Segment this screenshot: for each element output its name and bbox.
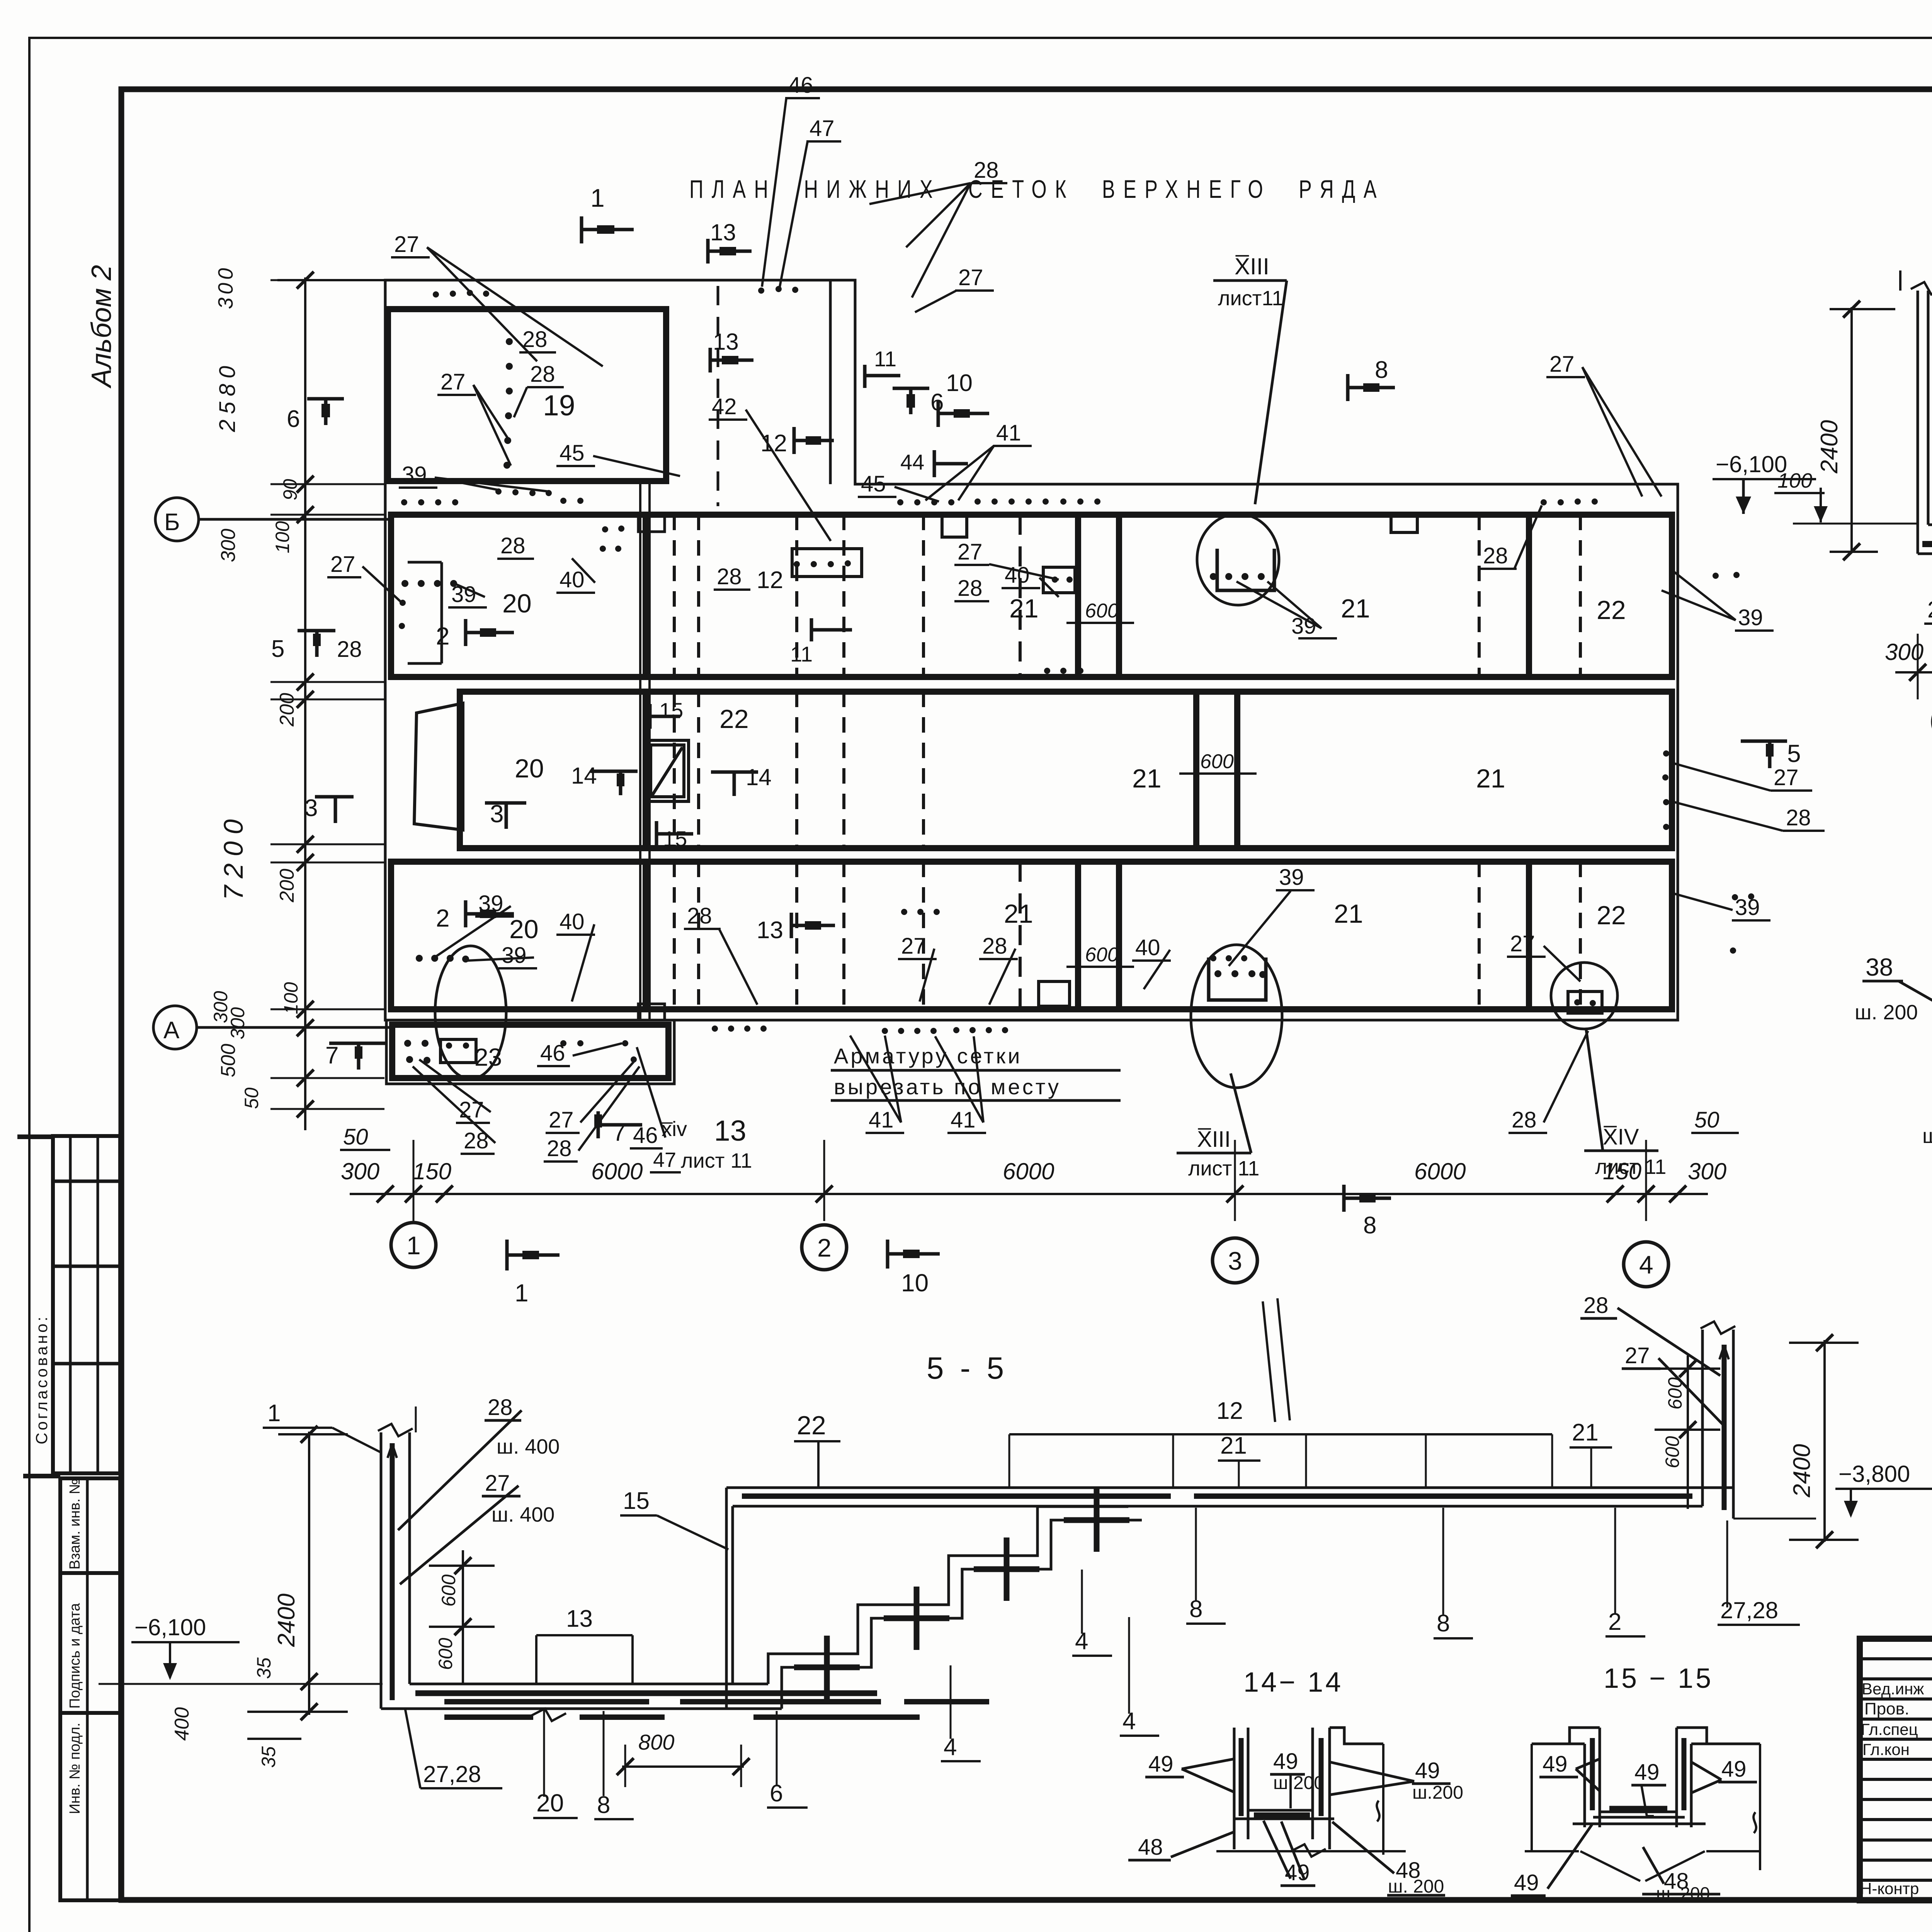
svg-text:15: 15 bbox=[663, 827, 687, 851]
svg-text:11: 11 bbox=[790, 642, 813, 666]
svg-text:45: 45 bbox=[861, 471, 886, 497]
svg-text:35: 35 bbox=[253, 1657, 275, 1679]
svg-text:28: 28 bbox=[957, 576, 983, 601]
svg-text:28: 28 bbox=[522, 327, 548, 352]
svg-text:вырезать по месту: вырезать по месту bbox=[834, 1075, 1061, 1099]
svg-text:27: 27 bbox=[330, 552, 355, 577]
svg-text:300: 300 bbox=[214, 265, 237, 309]
svg-text:44: 44 bbox=[900, 450, 924, 474]
svg-text:ш. 200: ш. 200 bbox=[1855, 1001, 1918, 1024]
svg-text:21: 21 bbox=[1476, 764, 1505, 793]
svg-text:2400: 2400 bbox=[273, 1594, 300, 1647]
svg-text:2: 2 bbox=[817, 1233, 832, 1262]
svg-text:27,28: 27,28 bbox=[1720, 1597, 1778, 1623]
svg-text:6000: 6000 bbox=[1414, 1158, 1466, 1184]
svg-text:27: 27 bbox=[394, 232, 419, 257]
svg-text:Взам. инв. №: Взам. инв. № bbox=[67, 1479, 83, 1570]
svg-text:49: 49 bbox=[1721, 1757, 1747, 1782]
svg-text:X̅IV: X̅IV bbox=[1603, 1124, 1639, 1150]
svg-text:6000: 6000 bbox=[591, 1158, 643, 1184]
svg-text:600: 600 bbox=[1662, 1436, 1683, 1468]
svg-text:1: 1 bbox=[515, 1279, 529, 1307]
svg-text:6000: 6000 bbox=[1003, 1158, 1054, 1184]
svg-text:13: 13 bbox=[714, 1114, 746, 1147]
svg-text:41: 41 bbox=[951, 1107, 976, 1133]
svg-text:46: 46 bbox=[540, 1041, 565, 1066]
svg-text:27: 27 bbox=[549, 1107, 574, 1133]
svg-text:39: 39 bbox=[402, 462, 427, 487]
svg-text:600: 600 bbox=[1085, 600, 1119, 622]
svg-text:8: 8 bbox=[1375, 357, 1388, 383]
svg-text:20: 20 bbox=[502, 589, 532, 618]
svg-text:46: 46 bbox=[788, 73, 813, 98]
svg-text:20: 20 bbox=[536, 1789, 564, 1817]
svg-text:600: 600 bbox=[1200, 750, 1234, 773]
svg-text:49: 49 bbox=[1514, 1870, 1539, 1895]
svg-text:15 − 15: 15 − 15 bbox=[1604, 1663, 1713, 1694]
svg-text:Пров.: Пров. bbox=[1864, 1699, 1909, 1718]
svg-text:49: 49 bbox=[1273, 1749, 1298, 1774]
svg-text:27: 27 bbox=[957, 539, 983, 565]
svg-text:лист 11: лист 11 bbox=[1188, 1157, 1259, 1180]
svg-text:28: 28 bbox=[1583, 1293, 1609, 1318]
svg-text:Гл.кон: Гл.кон bbox=[1862, 1740, 1910, 1759]
svg-text:27: 27 bbox=[485, 1471, 510, 1496]
svg-text:7: 7 bbox=[325, 1042, 338, 1069]
svg-text:41: 41 bbox=[996, 420, 1021, 446]
svg-text:27: 27 bbox=[1510, 931, 1535, 956]
svg-text:2400: 2400 bbox=[1789, 1444, 1815, 1498]
svg-text:47: 47 bbox=[810, 116, 835, 141]
svg-text:47: 47 bbox=[653, 1148, 676, 1172]
svg-text:14: 14 bbox=[571, 763, 597, 789]
svg-text:400: 400 bbox=[171, 1707, 193, 1741]
svg-text:300: 300 bbox=[341, 1158, 379, 1184]
svg-text:23: 23 bbox=[474, 1043, 502, 1071]
svg-text:800: 800 bbox=[638, 1730, 674, 1754]
svg-text:−6,100: −6,100 bbox=[1716, 451, 1787, 477]
svg-text:28: 28 bbox=[530, 362, 555, 387]
svg-text:22: 22 bbox=[1597, 901, 1626, 930]
svg-text:300: 300 bbox=[217, 529, 240, 562]
svg-text:50: 50 bbox=[241, 1087, 262, 1109]
svg-text:40: 40 bbox=[1005, 563, 1030, 588]
svg-text:20: 20 bbox=[509, 915, 539, 944]
svg-text:Подпись и дата: Подпись и дата bbox=[67, 1603, 83, 1709]
svg-text:45: 45 bbox=[560, 440, 585, 466]
svg-text:28: 28 bbox=[547, 1136, 572, 1161]
svg-text:7200: 7200 bbox=[218, 812, 248, 900]
svg-text:39: 39 bbox=[1735, 895, 1760, 920]
svg-text:14: 14 bbox=[746, 764, 772, 790]
svg-text:ш. 200: ш. 200 bbox=[1388, 1876, 1444, 1897]
svg-text:46: 46 bbox=[633, 1123, 658, 1148]
svg-text:21: 21 bbox=[1004, 899, 1033, 929]
svg-text:600: 600 bbox=[438, 1574, 459, 1607]
svg-text:27: 27 bbox=[958, 265, 983, 290]
svg-text:2580: 2580 bbox=[215, 361, 240, 432]
svg-text:28: 28 bbox=[337, 637, 362, 662]
svg-text:22: 22 bbox=[719, 704, 749, 734]
svg-text:ш.400: ш.400 bbox=[1922, 1124, 1932, 1148]
svg-text:200: 200 bbox=[276, 869, 298, 903]
svg-text:13: 13 bbox=[566, 1605, 593, 1632]
svg-text:49: 49 bbox=[1148, 1752, 1173, 1777]
svg-text:600: 600 bbox=[1085, 944, 1119, 966]
svg-text:Н-контр: Н-контр bbox=[1860, 1879, 1919, 1898]
svg-text:27,28: 27,28 bbox=[1927, 597, 1932, 622]
svg-text:ш.200: ш.200 bbox=[1412, 1782, 1463, 1803]
svg-text:27: 27 bbox=[1625, 1343, 1650, 1368]
svg-text:ш. 400: ш. 400 bbox=[492, 1503, 554, 1526]
svg-text:2400: 2400 bbox=[1816, 420, 1843, 474]
svg-text:35: 35 bbox=[258, 1746, 279, 1768]
svg-text:39: 39 bbox=[502, 943, 527, 968]
svg-text:27: 27 bbox=[440, 369, 466, 395]
svg-text:28: 28 bbox=[717, 564, 742, 589]
svg-text:27: 27 bbox=[1549, 352, 1575, 377]
svg-text:5: 5 bbox=[271, 636, 284, 662]
svg-text:22: 22 bbox=[797, 1411, 826, 1440]
svg-text:8: 8 bbox=[1363, 1212, 1376, 1239]
svg-text:300: 300 bbox=[1688, 1158, 1726, 1184]
svg-text:200: 200 bbox=[276, 693, 298, 727]
svg-text:X̅III: X̅III bbox=[1235, 253, 1269, 279]
svg-text:40: 40 bbox=[1135, 935, 1160, 960]
svg-text:21: 21 bbox=[1334, 899, 1363, 929]
svg-text:28: 28 bbox=[1483, 543, 1508, 568]
svg-text:28: 28 bbox=[488, 1395, 513, 1420]
svg-text:10: 10 bbox=[946, 370, 973, 396]
svg-text:14− 14: 14− 14 bbox=[1243, 1667, 1343, 1698]
svg-text:21: 21 bbox=[1572, 1419, 1599, 1446]
svg-text:21: 21 bbox=[1220, 1432, 1247, 1459]
svg-text:50: 50 bbox=[343, 1124, 368, 1150]
svg-text:39: 39 bbox=[1738, 605, 1763, 630]
svg-text:19: 19 bbox=[543, 389, 575, 422]
svg-text:1: 1 bbox=[406, 1231, 421, 1260]
svg-text:100: 100 bbox=[1777, 469, 1812, 492]
svg-text:28: 28 bbox=[1786, 805, 1811, 830]
svg-text:1: 1 bbox=[590, 184, 605, 212]
svg-text:28: 28 bbox=[982, 934, 1007, 959]
svg-text:5: 5 bbox=[1787, 740, 1801, 767]
svg-text:27: 27 bbox=[1774, 765, 1799, 790]
svg-text:лист 11: лист 11 bbox=[681, 1149, 752, 1172]
svg-text:4: 4 bbox=[1639, 1250, 1653, 1279]
svg-text:12: 12 bbox=[1216, 1398, 1243, 1424]
svg-text:−3,800: −3,800 bbox=[1838, 1461, 1910, 1487]
svg-text:27: 27 bbox=[459, 1097, 484, 1122]
svg-text:лист11: лист11 bbox=[1218, 287, 1283, 310]
svg-text:150: 150 bbox=[413, 1158, 451, 1184]
svg-text:Вед.инж: Вед.инж bbox=[1862, 1680, 1924, 1698]
svg-text:40: 40 bbox=[560, 909, 585, 934]
svg-text:40: 40 bbox=[560, 567, 585, 592]
svg-text:28: 28 bbox=[687, 903, 712, 929]
svg-text:ш. 400: ш. 400 bbox=[497, 1435, 560, 1458]
svg-text:Б: Б bbox=[164, 509, 180, 536]
svg-text:21: 21 bbox=[1009, 594, 1039, 623]
svg-text:50: 50 bbox=[1694, 1107, 1719, 1133]
svg-text:49: 49 bbox=[1634, 1760, 1660, 1785]
svg-text:49: 49 bbox=[1543, 1752, 1568, 1777]
svg-text:1: 1 bbox=[267, 1400, 281, 1427]
svg-text:11: 11 bbox=[874, 347, 896, 371]
svg-text:Согласовано:: Согласовано: bbox=[32, 1315, 51, 1444]
svg-text:38: 38 bbox=[1866, 953, 1893, 981]
svg-text:28: 28 bbox=[500, 533, 526, 558]
svg-text:15: 15 bbox=[623, 1488, 650, 1514]
svg-text:20: 20 bbox=[515, 754, 544, 783]
svg-text:27: 27 bbox=[901, 934, 926, 959]
svg-text:27,28: 27,28 bbox=[423, 1761, 481, 1787]
svg-text:12: 12 bbox=[757, 567, 783, 594]
svg-text:21: 21 bbox=[1341, 594, 1370, 623]
svg-text:500: 500 bbox=[217, 1044, 240, 1077]
svg-text:3: 3 bbox=[1228, 1247, 1242, 1275]
svg-text:39: 39 bbox=[451, 582, 476, 607]
svg-text:100: 100 bbox=[272, 521, 293, 553]
svg-text:13: 13 bbox=[710, 219, 736, 245]
svg-text:Гл.спец: Гл.спец bbox=[1861, 1720, 1918, 1738]
svg-text:А: А bbox=[163, 1017, 180, 1044]
svg-text:Инв. № подл.: Инв. № подл. bbox=[67, 1723, 83, 1814]
svg-text:28: 28 bbox=[1512, 1107, 1537, 1133]
svg-text:13: 13 bbox=[713, 329, 739, 355]
svg-text:150: 150 bbox=[1603, 1158, 1641, 1184]
svg-text:28: 28 bbox=[974, 158, 999, 183]
svg-text:2: 2 bbox=[436, 904, 450, 932]
svg-text:600: 600 bbox=[435, 1638, 456, 1670]
svg-text:42: 42 bbox=[712, 394, 737, 419]
svg-text:ПЛАН НИЖНИХ СЕТОК ВЕРХНЕГО: ПЛАН НИЖНИХ СЕТОК ВЕРХНЕГО РЯДА bbox=[689, 175, 1385, 203]
svg-text:22: 22 bbox=[1597, 595, 1626, 625]
svg-text:300: 300 bbox=[227, 1007, 248, 1039]
svg-text:6: 6 bbox=[287, 406, 300, 432]
svg-text:Альбом 2: Альбом 2 bbox=[86, 265, 117, 389]
svg-text:39: 39 bbox=[1279, 865, 1304, 890]
svg-text:13: 13 bbox=[757, 917, 783, 944]
svg-text:−6,100: −6,100 bbox=[134, 1614, 206, 1640]
svg-text:15: 15 bbox=[659, 698, 683, 723]
svg-text:21: 21 bbox=[1132, 764, 1162, 793]
svg-text:49: 49 bbox=[1415, 1758, 1440, 1783]
svg-text:41: 41 bbox=[869, 1107, 894, 1133]
svg-text:5 - 5: 5 - 5 bbox=[927, 1351, 1008, 1385]
svg-text:48: 48 bbox=[1138, 1835, 1163, 1860]
svg-text:X̅III: X̅III bbox=[1197, 1127, 1231, 1152]
svg-text:3: 3 bbox=[304, 795, 318, 821]
svg-text:10: 10 bbox=[901, 1269, 929, 1297]
svg-text:ш.200: ш.200 bbox=[1273, 1773, 1324, 1793]
